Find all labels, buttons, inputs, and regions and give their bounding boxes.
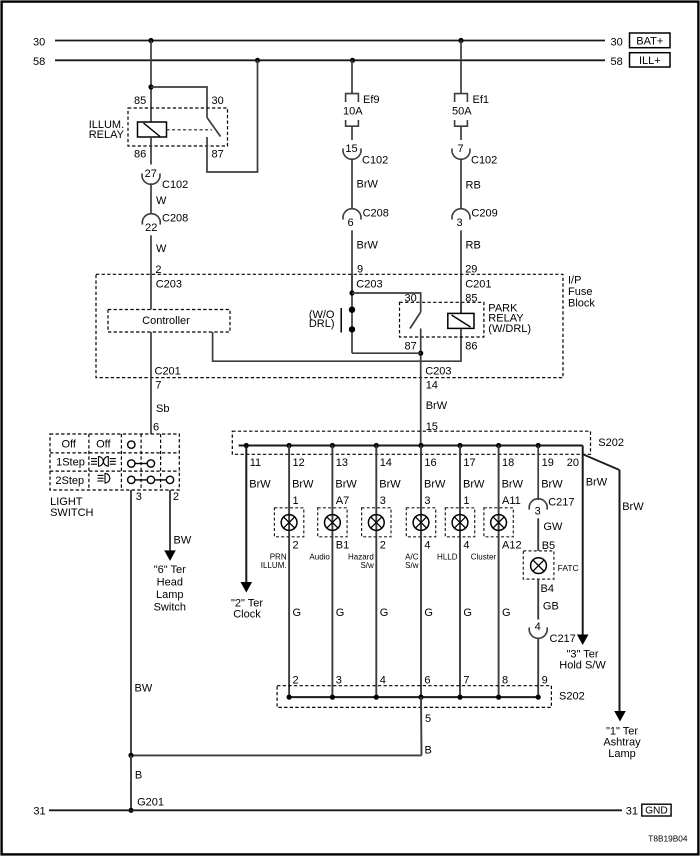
- S202 bus line: [239, 445, 583, 447]
- arrow to ashtray lamp: [614, 711, 626, 722]
- svg-text:3: 3: [136, 491, 142, 503]
- svg-text:GB: GB: [543, 601, 559, 613]
- wire B to ground bus: [130, 755, 132, 810]
- svg-text:DRL): DRL): [309, 318, 335, 330]
- svg-text:C203: C203: [156, 278, 182, 290]
- junction G201: [128, 808, 133, 813]
- junction S202 pin 19: [536, 443, 541, 448]
- svg-text:C203: C203: [356, 278, 382, 290]
- svg-text:A12: A12: [502, 540, 522, 552]
- 1step headlight symbol: [91, 457, 116, 467]
- wire S202 lower pin5 output: [420, 697, 423, 755]
- svg-text:C102: C102: [362, 154, 388, 166]
- svg-text:B4: B4: [541, 583, 554, 595]
- svg-text:BrW: BrW: [622, 501, 644, 513]
- svg-text:"6" Ter: "6" Ter: [154, 564, 186, 576]
- park relay switch: [420, 302, 422, 312]
- svg-text:G201: G201: [137, 797, 164, 809]
- svg-text:30: 30: [33, 36, 45, 48]
- svg-text:14: 14: [380, 457, 392, 469]
- wire bus30 to fuse Ef1: [460, 41, 462, 94]
- svg-text:1: 1: [293, 495, 299, 507]
- GND terminal box: [642, 804, 671, 816]
- svg-text:8: 8: [502, 674, 508, 686]
- svg-text:31: 31: [33, 805, 45, 817]
- svg-text:A11: A11: [502, 495, 521, 507]
- svg-text:30: 30: [405, 292, 417, 304]
- svg-text:86: 86: [465, 341, 477, 353]
- svg-text:22: 22: [145, 222, 157, 234]
- junction S202 pin 17: [457, 443, 462, 448]
- svg-text:87: 87: [212, 149, 224, 161]
- svg-text:Ef9: Ef9: [363, 94, 380, 106]
- svg-text:2: 2: [293, 674, 299, 686]
- svg-text:S/w: S/w: [360, 561, 374, 570]
- svg-text:30: 30: [212, 95, 224, 107]
- fuse Ef9 10A: [346, 94, 359, 102]
- svg-text:BrW: BrW: [249, 478, 271, 490]
- svg-text:C208: C208: [162, 213, 188, 225]
- wire to I/P fuse block pin2: [150, 235, 152, 309]
- junction relay feed split: [148, 84, 153, 89]
- svg-text:1Step: 1Step: [56, 457, 85, 469]
- svg-text:16: 16: [424, 457, 436, 469]
- svg-text:10A: 10A: [343, 106, 363, 118]
- svg-text:2Step: 2Step: [55, 475, 84, 487]
- svg-text:BrW: BrW: [292, 478, 314, 490]
- junction S202 pin 12: [287, 443, 292, 448]
- wire S202 pin11 to clock: [245, 446, 247, 583]
- svg-text:12: 12: [293, 457, 305, 469]
- park relay coil: [460, 302, 462, 313]
- S202 splice box upper: [232, 431, 590, 454]
- svg-text:Off: Off: [62, 439, 77, 451]
- svg-text:30: 30: [611, 36, 623, 48]
- svg-text:31: 31: [626, 805, 638, 817]
- svg-text:Cluster: Cluster: [471, 553, 497, 562]
- svg-text:BrW: BrW: [379, 478, 401, 490]
- junction S202 lower 4: [374, 695, 379, 700]
- illum relay switch: [206, 109, 208, 118]
- svg-text:2: 2: [293, 540, 299, 552]
- svg-text:W: W: [156, 243, 167, 255]
- junction bus58/relay87 return: [255, 58, 260, 63]
- wire GW: [537, 518, 539, 551]
- junction S202 lower 9: [536, 695, 541, 700]
- bus corner down to hold S/W: [582, 446, 584, 635]
- svg-text:6: 6: [153, 421, 159, 433]
- svg-text:GND: GND: [645, 806, 668, 817]
- wire S202 pin17 down: [459, 446, 461, 698]
- svg-text:Ef1: Ef1: [473, 94, 490, 106]
- wire coil pin86 down: [150, 137, 152, 165]
- svg-text:4: 4: [424, 540, 430, 552]
- svg-text:BrW: BrW: [502, 478, 524, 490]
- svg-text:RB: RB: [466, 180, 481, 192]
- svg-text:C201: C201: [465, 278, 491, 290]
- svg-text:58: 58: [611, 56, 623, 68]
- svg-text:6: 6: [347, 217, 353, 229]
- svg-text:11: 11: [250, 457, 261, 469]
- wire W: [150, 183, 152, 213]
- fuse Ef1 50A: [455, 94, 468, 102]
- svg-text:BrW: BrW: [424, 478, 446, 490]
- svg-text:G: G: [336, 607, 345, 619]
- svg-text:B: B: [135, 769, 142, 781]
- svg-text:Hold S/W: Hold S/W: [559, 659, 606, 671]
- wire pin9 branch inside block: [351, 274, 353, 353]
- wire to S202 lower pin9: [537, 638, 539, 698]
- junction S202 lower 2: [287, 695, 292, 700]
- svg-text:S/w: S/w: [405, 561, 419, 570]
- svg-text:S202: S202: [598, 437, 624, 449]
- svg-text:B: B: [425, 744, 432, 756]
- I/P fuse block dashed box: [96, 274, 563, 377]
- svg-text:Off: Off: [96, 439, 111, 451]
- wire RB: [460, 158, 462, 208]
- svg-text:17: 17: [463, 457, 475, 469]
- junction to park relay sw30: [349, 290, 354, 295]
- svg-text:Lamp: Lamp: [608, 748, 636, 760]
- junction bus30/illum-relay: [148, 38, 153, 43]
- svg-text:C217: C217: [548, 496, 574, 508]
- svg-text:3: 3: [535, 506, 541, 518]
- svg-text:Controller: Controller: [142, 315, 190, 327]
- svg-text:BrW: BrW: [357, 239, 379, 251]
- svg-text:4: 4: [380, 674, 386, 686]
- svg-text:C208: C208: [363, 207, 389, 219]
- svg-text:HLLD: HLLD: [437, 553, 458, 562]
- svg-text:87: 87: [405, 341, 417, 353]
- wire to park relay switch pin30: [352, 293, 421, 302]
- svg-text:G: G: [380, 607, 389, 619]
- svg-text:20: 20: [567, 457, 579, 469]
- connector C208 pin22: [142, 214, 160, 225]
- light switch dashed table: [50, 434, 179, 490]
- svg-text:BW: BW: [174, 535, 192, 547]
- park relay dashed box: [400, 302, 484, 337]
- wire S202 pin18 down: [498, 446, 500, 698]
- svg-text:13: 13: [336, 457, 348, 469]
- svg-text:Audio: Audio: [309, 553, 330, 562]
- junction bus30/Ef1: [458, 38, 463, 43]
- wire bus58 to fuse Ef9: [351, 60, 353, 93]
- wire split to switch pin30: [151, 87, 207, 109]
- svg-text:9: 9: [542, 674, 548, 686]
- junction S202 pin 14: [374, 443, 379, 448]
- svg-text:3: 3: [424, 495, 430, 507]
- svg-text:BrW: BrW: [335, 478, 357, 490]
- controller output wire to park relay pin86: [213, 328, 461, 361]
- svg-text:3: 3: [456, 217, 462, 229]
- junction S202 lower 6: [418, 695, 423, 700]
- svg-text:29: 29: [465, 263, 477, 275]
- junction S202 pin 13: [330, 443, 335, 448]
- W/O DRL junction upper: [349, 307, 355, 313]
- svg-text:50A: 50A: [452, 106, 472, 118]
- junction ground wires: [128, 753, 133, 758]
- BAT+ terminal box: [630, 33, 671, 48]
- svg-text:T8B19B04: T8B19B04: [648, 834, 688, 844]
- svg-text:BrW: BrW: [357, 179, 379, 191]
- wire pin87 to bus58: [207, 60, 258, 172]
- svg-text:BrW: BrW: [541, 478, 563, 490]
- svg-text:GW: GW: [543, 521, 563, 533]
- svg-text:1: 1: [463, 495, 469, 507]
- controller dashed box: [108, 310, 230, 333]
- junction bus58/Ef9: [350, 58, 355, 63]
- connector C209 pin3: [452, 209, 470, 220]
- svg-text:B1: B1: [336, 540, 349, 552]
- svg-text:9: 9: [357, 263, 363, 275]
- svg-text:58: 58: [33, 56, 45, 68]
- svg-text:BrW: BrW: [463, 478, 485, 490]
- S202 lower bus line: [289, 696, 538, 698]
- wire S202 pin16 down: [420, 446, 422, 698]
- connector C217 pin3: [529, 499, 547, 510]
- wire controller through: [150, 332, 152, 434]
- svg-text:BrW: BrW: [426, 400, 448, 412]
- svg-text:LIGHT: LIGHT: [50, 496, 83, 508]
- svg-text:3: 3: [336, 674, 342, 686]
- 2step contacts: [128, 476, 135, 483]
- svg-text:Block: Block: [568, 297, 595, 309]
- wire to ground junction: [131, 754, 422, 756]
- svg-text:(W/DRL): (W/DRL): [488, 323, 531, 335]
- svg-text:Head: Head: [157, 576, 183, 588]
- svg-text:Ashtray: Ashtray: [603, 737, 641, 749]
- svg-text:BW: BW: [135, 682, 153, 694]
- svg-text:5: 5: [425, 713, 431, 725]
- wire park relay output: [420, 329, 422, 446]
- wire WO-DRL to output: [352, 352, 421, 354]
- 2step headlight symbol: [98, 473, 110, 483]
- svg-text:Clock: Clock: [233, 609, 261, 621]
- wire fuse to C102: [351, 126, 353, 140]
- arrow to head lamp switch: [164, 550, 176, 561]
- wire light switch pin3 BW down: [130, 490, 132, 755]
- wire BrW: [351, 158, 353, 208]
- wire fuse to C102: [460, 126, 462, 140]
- bus 58 ILL+: [55, 59, 605, 61]
- svg-text:G: G: [502, 607, 511, 619]
- svg-text:G: G: [424, 607, 433, 619]
- ILL+ terminal box: [630, 53, 671, 67]
- svg-text:2: 2: [380, 540, 386, 552]
- W/O DRL junction lower: [349, 326, 355, 332]
- svg-text:B5: B5: [542, 540, 555, 552]
- svg-text:BAT+: BAT+: [636, 36, 663, 48]
- svg-text:W: W: [156, 195, 167, 207]
- arrow to hold S/W: [577, 635, 589, 646]
- wire GB: [537, 579, 539, 619]
- svg-text:Sb: Sb: [156, 403, 169, 415]
- svg-text:RELAY: RELAY: [89, 129, 125, 141]
- S202 splice box lower: [277, 686, 551, 708]
- svg-text:7: 7: [457, 143, 463, 155]
- svg-text:85: 85: [465, 292, 477, 304]
- svg-text:G: G: [293, 607, 302, 619]
- svg-text:6: 6: [424, 674, 430, 686]
- svg-text:3: 3: [380, 495, 386, 507]
- svg-text:C102: C102: [162, 179, 188, 191]
- FATC lamp: [523, 551, 554, 579]
- svg-text:ILL+: ILL+: [639, 55, 661, 67]
- svg-text:86: 86: [134, 149, 146, 161]
- junction S202 pin 11: [244, 443, 249, 448]
- illum relay coil: [138, 122, 167, 137]
- wire light switch pin2 to head lamp switch: [169, 490, 171, 550]
- svg-text:4: 4: [535, 621, 541, 633]
- arrow to clock: [241, 582, 253, 593]
- connector C208 pin6: [343, 209, 361, 220]
- svg-text:BrW: BrW: [586, 477, 608, 489]
- svg-text:G: G: [463, 607, 472, 619]
- svg-text:FATC: FATC: [558, 563, 579, 573]
- wire to I/P fuse block pin9: [351, 230, 353, 293]
- svg-text:Switch: Switch: [154, 601, 186, 613]
- diagonal branch to ashtray: [583, 454, 620, 470]
- svg-text:C209: C209: [471, 207, 497, 219]
- svg-text:C217: C217: [550, 633, 576, 645]
- svg-text:RB: RB: [466, 239, 481, 251]
- junction S202 lower 3: [330, 695, 335, 700]
- junction S202 lower 7: [457, 695, 462, 700]
- svg-text:15: 15: [345, 143, 357, 155]
- svg-text:Fuse: Fuse: [568, 286, 592, 298]
- wire S202 pin12 down: [288, 446, 290, 698]
- wire to I/P fuse block pin29: [460, 230, 462, 313]
- wire ashtray down: [619, 470, 621, 711]
- svg-text:2: 2: [173, 491, 179, 503]
- svg-text:C102: C102: [471, 154, 497, 166]
- bus 31 GND: [49, 809, 622, 811]
- svg-text:7: 7: [463, 674, 469, 686]
- wire S202 pin19 down: [537, 446, 539, 501]
- bus 30 BAT+: [55, 40, 605, 42]
- junction S202 pin 16: [418, 443, 423, 448]
- svg-text:7: 7: [155, 379, 161, 391]
- svg-text:S202: S202: [559, 690, 585, 702]
- junction 87/WO-DRL: [418, 351, 423, 356]
- svg-text:4: 4: [463, 540, 469, 552]
- wire S202 pin14 down: [375, 446, 377, 698]
- junction S202 pin 18: [496, 443, 501, 448]
- svg-text:SWITCH: SWITCH: [50, 507, 93, 519]
- illum relay link (dashed): [167, 129, 213, 131]
- svg-text:"1" Ter: "1" Ter: [606, 725, 638, 737]
- svg-text:27: 27: [145, 168, 157, 180]
- svg-text:18: 18: [502, 457, 514, 469]
- illum relay dashed box: [128, 108, 228, 146]
- 1step contacts: [128, 460, 135, 467]
- svg-text:A7: A7: [336, 495, 349, 507]
- svg-text:19: 19: [542, 457, 554, 469]
- svg-text:C203: C203: [425, 366, 451, 378]
- svg-text:Lamp: Lamp: [156, 589, 184, 601]
- svg-text:ILLUM.: ILLUM.: [261, 561, 287, 570]
- junction S202 lower 8: [496, 695, 501, 700]
- wire S202 pin13 down: [331, 446, 333, 698]
- wire bus30 to illum relay coil pin85: [150, 41, 152, 123]
- svg-text:I/P: I/P: [568, 274, 581, 286]
- svg-text:85: 85: [134, 95, 146, 107]
- svg-text:14: 14: [426, 379, 438, 391]
- svg-text:C201: C201: [155, 365, 181, 377]
